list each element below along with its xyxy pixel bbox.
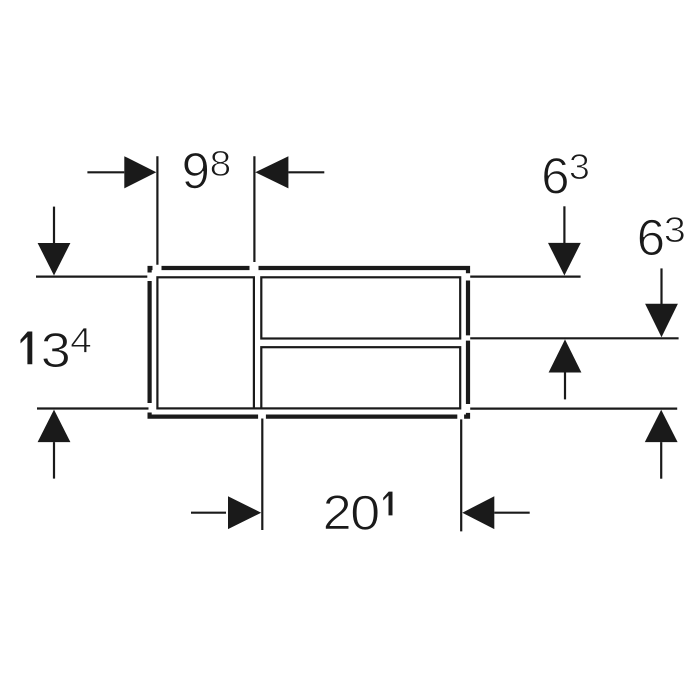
dim 63 first up arrowhead bbox=[549, 339, 582, 372]
dim 98 left dimension line bbox=[87, 171, 124, 173]
dim label 134 digit 1 bbox=[20, 331, 33, 365]
dim label 201 digit 0 bbox=[352, 495, 378, 530]
dim 134 top arrow tail bbox=[53, 207, 55, 243]
dim 98 left extension line bbox=[156, 156, 158, 265]
dim 63 first down arrowhead bbox=[548, 243, 581, 276]
cabinet right border upper run bbox=[466, 281, 470, 336]
dim 98 left arrowhead bbox=[124, 156, 156, 188]
dim 201 right arrowhead bbox=[462, 496, 494, 529]
dim label 134 superscript 4 bbox=[71, 328, 91, 353]
dim 63 first down arrow tail bbox=[563, 206, 565, 243]
dim 98 right arrowhead bbox=[255, 156, 288, 188]
cabinet top-left corner piece bbox=[150, 268, 153, 273]
dim label 201 digit 2 bbox=[325, 495, 349, 529]
dim 134 bottom arrow tail bbox=[53, 442, 55, 479]
dim 63 second up arrow tail bbox=[660, 442, 662, 479]
dim 134 bottom extension line bbox=[37, 407, 149, 409]
right extension line bottom (inner bottom level) bbox=[470, 408, 677, 410]
dim 63 first up arrow tail bbox=[564, 373, 566, 400]
inner bottom line bridge across divider bbox=[254, 407, 261, 409]
dim 134 top extension line bbox=[36, 276, 147, 278]
dim label 98 bbox=[184, 153, 208, 189]
cabinet top border right run with corner hook bbox=[259, 268, 469, 273]
dim label 134 digit 3 bbox=[43, 333, 69, 368]
dim 201 left dimension line bbox=[191, 512, 226, 514]
dim 63 second down arrow tail bbox=[660, 268, 662, 304]
dim 201 right dimension line bbox=[494, 512, 529, 514]
cabinet bottom-right corner piece bbox=[464, 413, 468, 417]
dim 63 second down arrowhead bbox=[645, 304, 678, 338]
right extension line middle (drawer shelf level) bbox=[470, 337, 678, 339]
dim 134 top arrowhead bbox=[38, 243, 71, 276]
dim label 201 superscript 1 bbox=[383, 491, 393, 516]
dim 134 bottom arrowhead bbox=[38, 410, 71, 443]
left compartment inner box bbox=[157, 277, 254, 408]
dim 201 right extension line bbox=[460, 419, 462, 531]
right extension line top (drawer top level) bbox=[470, 276, 580, 278]
dim 63 second up arrowhead bbox=[645, 410, 678, 442]
lower drawer box bbox=[261, 347, 460, 408]
cabinet top border left run bbox=[162, 266, 250, 270]
dim 201 left extension line bbox=[261, 419, 263, 531]
dim label 63 second bbox=[639, 219, 663, 255]
cabinet bottom border right run bbox=[266, 415, 457, 419]
dim 98 right dimension line bbox=[288, 171, 324, 173]
dim 98 right extension line bbox=[253, 156, 255, 262]
cabinet bottom border left run with corner bbox=[150, 413, 259, 417]
dim label 63 first bbox=[544, 158, 568, 194]
upper drawer box bbox=[261, 277, 460, 338]
dim 201 left arrowhead bbox=[228, 496, 261, 529]
cabinet left border bbox=[148, 281, 152, 403]
cabinet right border lower run bbox=[466, 341, 470, 404]
